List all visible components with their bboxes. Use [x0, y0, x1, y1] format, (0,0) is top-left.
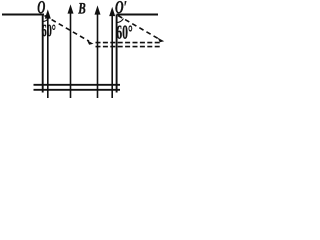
- svg-text:60°: 60°: [42, 21, 56, 40]
- svg-text:O′: O′: [115, 0, 127, 17]
- svg-text:B: B: [78, 1, 86, 18]
- svg-text:O: O: [37, 0, 45, 17]
- svg-text:60°: 60°: [116, 23, 132, 44]
